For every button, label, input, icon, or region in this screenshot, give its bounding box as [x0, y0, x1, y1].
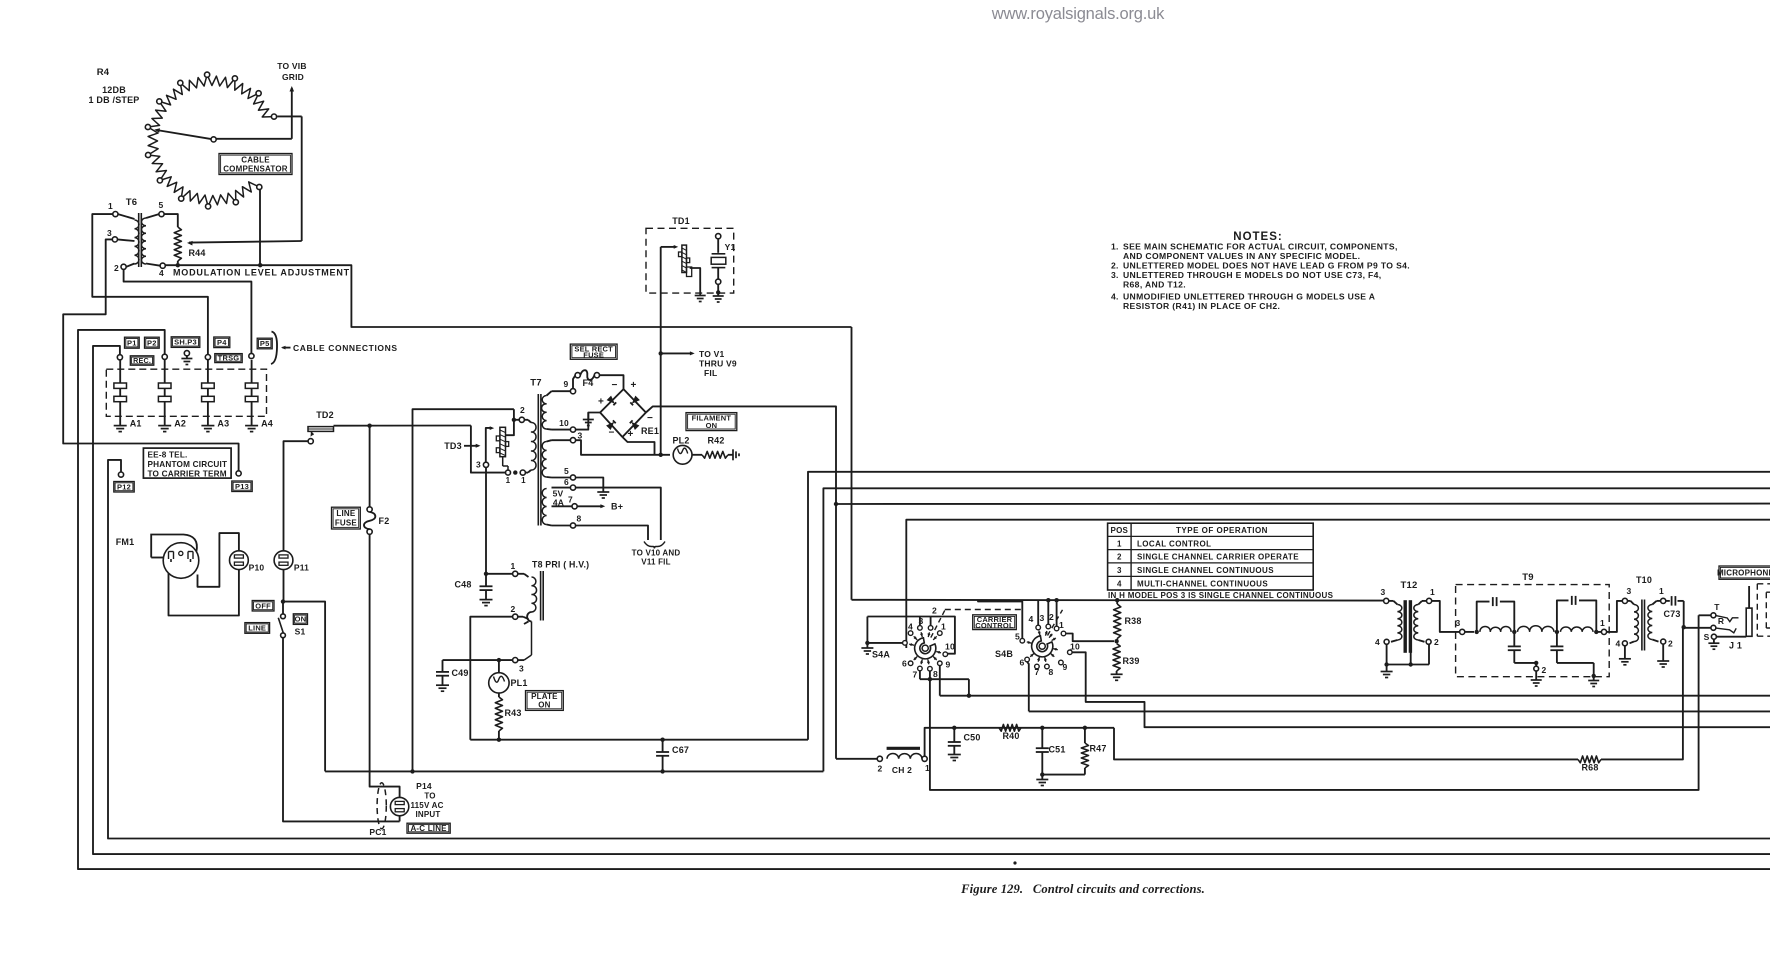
- wire bridge bottom to filament line: [622, 437, 654, 455]
- svg-text:3: 3: [1627, 586, 1632, 596]
- svg-text:2: 2: [114, 263, 119, 273]
- node junction C50: [952, 726, 956, 730]
- node junction S4A bottom: [928, 677, 932, 681]
- svg-text:1: 1: [511, 561, 516, 571]
- box OFF: [252, 601, 274, 612]
- wire AC bus upper (T8 return): [470, 739, 808, 741]
- svg-text:5: 5: [564, 466, 569, 476]
- svg-text:MODULATION LEVEL ADJUSTMENT: MODULATION LEVEL ADJUSTMENT: [173, 268, 350, 278]
- svg-text:GRID: GRID: [282, 72, 304, 82]
- svg-text:CABLE: CABLE: [241, 155, 270, 164]
- svg-text:1: 1: [941, 622, 946, 632]
- svg-text:AND COMPONENT VALUES IN ANY SP: AND COMPONENT VALUES IN ANY SPECIFIC MOD…: [1123, 251, 1360, 261]
- svg-text:FUSE: FUSE: [583, 350, 604, 359]
- node junction T9 mid1: [1512, 630, 1516, 634]
- wire T7 pin3 to filament line: [576, 440, 670, 455]
- capacitor T9 shunt2: [1550, 634, 1593, 676]
- svg-text:−: −: [647, 413, 653, 424]
- svg-text:A1: A1: [130, 419, 142, 429]
- svg-text:3: 3: [578, 431, 583, 441]
- terminal T7 pin8: [547, 514, 582, 529]
- svg-text:T9: T9: [1522, 572, 1534, 583]
- svg-text:T10: T10: [1636, 575, 1652, 585]
- svg-text:C48: C48: [454, 580, 471, 590]
- wire T7 pin10 to bridge left with ground: [576, 413, 601, 430]
- capacitor T9 top1: [1477, 597, 1515, 632]
- arrester column A1: [114, 360, 142, 432]
- svg-text:REC.: REC.: [133, 356, 151, 365]
- wire R68 to C73 node: [1601, 627, 1683, 759]
- svg-text:4: 4: [159, 268, 164, 278]
- resistor R38: [1114, 600, 1142, 641]
- svg-text:R68, AND T12.: R68, AND T12.: [1123, 280, 1186, 290]
- resistor R39: [1111, 644, 1140, 681]
- dashed rotor pointer S4A: [931, 610, 1024, 638]
- wire R4 lower terminal down to modulation line: [259, 190, 261, 266]
- diode RE1 bottom-left: [606, 420, 616, 430]
- website watermark text: [991, 5, 1165, 23]
- svg-text:R47: R47: [1089, 744, 1106, 754]
- svg-text:EE-8 TEL.: EE-8 TEL.: [148, 451, 188, 460]
- node junction pin1 row: [513, 470, 517, 474]
- svg-text:5: 5: [1015, 632, 1020, 642]
- terminal P4: [205, 355, 210, 360]
- node junction T9 mid2: [1555, 630, 1559, 634]
- ground R42: [728, 449, 739, 460]
- svg-text:PL1: PL1: [510, 678, 527, 688]
- svg-text:1: 1: [506, 476, 511, 485]
- svg-text:SH.P3: SH.P3: [174, 338, 197, 347]
- svg-text:POS: POS: [1111, 526, 1129, 535]
- wire T7 pin3 to C48: [485, 467, 487, 573]
- wire F4 to bridge top: [600, 375, 624, 389]
- svg-text:TD3: TD3: [444, 441, 462, 451]
- cable sheath PC1 dashed: [369, 783, 386, 837]
- wire C51 R47 bottom with ground: [1036, 772, 1085, 785]
- resistor R40: [999, 724, 1021, 741]
- rectifier bridge RE1: [600, 389, 646, 437]
- rotary switch S4B: [995, 612, 1080, 677]
- node junction R4 lower on modulation line: [258, 263, 262, 267]
- svg-text:INPUT: INPUT: [416, 810, 441, 819]
- capacitor C48: [454, 574, 492, 606]
- wire T6 pin3 to P13 via left loop: [63, 239, 238, 471]
- node junction PL2: [659, 453, 663, 457]
- svg-text:4: 4: [1117, 580, 1122, 589]
- ground T10 pin4: [1619, 646, 1631, 665]
- wire bus2 AC return: [823, 488, 1770, 771]
- wire C48 node to T8 pin1: [486, 573, 513, 575]
- wire bus8 jog to R68 line: [1114, 728, 1578, 760]
- svg-text:TO V10 AND: TO V10 AND: [632, 549, 681, 558]
- svg-text:4.: 4.: [1111, 292, 1119, 302]
- svg-text:R38: R38: [1124, 616, 1141, 626]
- svg-text:−: −: [611, 380, 617, 391]
- rheostat R4 wiper arm: [154, 128, 216, 142]
- svg-text:1: 1: [1659, 586, 1664, 596]
- svg-text:9: 9: [564, 379, 569, 389]
- svg-text:LINE: LINE: [336, 509, 355, 518]
- terminal T9 pin3: [1456, 618, 1474, 635]
- jack J1 sleeve contact: [1704, 632, 1720, 649]
- wire carrier feed vertical: [851, 327, 853, 600]
- svg-text:ON: ON: [706, 421, 718, 430]
- svg-text:LOCAL CONTROL: LOCAL CONTROL: [1137, 539, 1211, 548]
- terminal T9 pin2: [1531, 665, 1547, 686]
- wire bus5 carrier line: [852, 599, 1384, 602]
- wire T9 shunt1 to terminal2: [1514, 661, 1538, 667]
- node junction PL1 top: [497, 658, 501, 662]
- svg-text:MULTI-CHANNEL CONTINUOUS: MULTI-CHANNEL CONTINUOUS: [1137, 580, 1268, 589]
- svg-text:3: 3: [1040, 613, 1045, 623]
- capacitor T9 shunt1: [1508, 632, 1521, 663]
- box FILAMENT ON: [686, 413, 737, 431]
- box P13: [232, 481, 252, 492]
- node junction R47 top: [1083, 726, 1087, 730]
- box CARRIER CONTROL: [973, 615, 1017, 630]
- capacitor T9 top2: [1557, 596, 1596, 632]
- svg-text:2.: 2.: [1111, 261, 1119, 271]
- connector box P4: [214, 337, 230, 348]
- fuse F4: [573, 370, 600, 388]
- terminal T7 pin3 secondary: [547, 431, 583, 443]
- svg-text:P4: P4: [217, 338, 227, 347]
- dashed microphone cable: [1757, 584, 1770, 636]
- svg-text:2: 2: [1434, 637, 1439, 647]
- svg-text:RESISTOR (R41) IN PLACE OF CH2: RESISTOR (R41) IN PLACE OF CH2.: [1123, 301, 1280, 311]
- svg-text:6: 6: [902, 659, 907, 669]
- svg-text:7: 7: [1035, 667, 1040, 677]
- svg-text:4A: 4A: [553, 498, 564, 508]
- plug P14: [390, 797, 408, 821]
- svg-text:OFF: OFF: [255, 601, 271, 610]
- terminal P13: [236, 471, 241, 476]
- svg-text:Figure 129. Control circuits: Figure 129. Control circuits and correct…: [960, 882, 1205, 896]
- ground bridge left: [583, 413, 594, 426]
- svg-text:C49: C49: [451, 668, 468, 678]
- diode RE1 bottom-right: [630, 420, 640, 430]
- node junction T9 out: [1594, 630, 1601, 634]
- svg-text:P14: P14: [416, 781, 432, 791]
- transformer T8: [511, 560, 590, 674]
- label 4 MODULATION LEVEL ADJUSTMENT: [159, 268, 350, 279]
- jack J1 ring contact: [1711, 616, 1724, 630]
- terminal T7 pin2: [514, 405, 525, 422]
- svg-text:1: 1: [1059, 620, 1064, 630]
- stray dot artifact: [1013, 861, 1016, 864]
- wire S4B contact6 to bus7: [1027, 662, 1029, 712]
- svg-text:1 DB /STEP: 1 DB /STEP: [88, 95, 139, 105]
- wire F2 to P14: [370, 534, 400, 797]
- dashed box T9: [1456, 572, 1610, 677]
- wire T6 pin2 to P5: [124, 269, 252, 353]
- transformer T7: [524, 378, 546, 526]
- box MICROPHONE: [1717, 566, 1770, 579]
- box SEL RECT FUSE: [570, 344, 617, 359]
- svg-text:6: 6: [1020, 658, 1025, 668]
- wire S4B contact1 to R38 R39 node: [1066, 634, 1114, 642]
- svg-text:TO V1: TO V1: [699, 349, 724, 359]
- svg-text:S4B: S4B: [995, 649, 1013, 659]
- svg-text:F4: F4: [583, 378, 594, 388]
- svg-text:TD1: TD1: [672, 216, 690, 226]
- svg-text:12DB: 12DB: [102, 85, 126, 95]
- svg-text:UNLETTERED MODEL DOES NOT HAVE: UNLETTERED MODEL DOES NOT HAVE LEAD G FR…: [1123, 261, 1410, 271]
- svg-text:A-C LINE: A-C LINE: [410, 824, 447, 833]
- rotary switch S4A: [872, 606, 955, 680]
- wire P1 to left bus: [93, 346, 1770, 854]
- wire CH2 to bus8: [925, 728, 1114, 756]
- svg-text:TO CARRIER TERM: TO CARRIER TERM: [148, 470, 227, 479]
- svg-text:3: 3: [107, 228, 112, 238]
- svg-text:3.: 3.: [1111, 270, 1119, 280]
- svg-text:1: 1: [1430, 587, 1435, 597]
- wire TD3 actuate arrow from pin3: [486, 426, 494, 462]
- transformer T6: [107, 197, 165, 273]
- svg-text:2: 2: [511, 604, 516, 614]
- node junction bus3 tap: [834, 502, 838, 506]
- wire bus3 from bridge: [836, 503, 1770, 505]
- svg-text:4: 4: [1616, 639, 1621, 649]
- node junction R38 R39: [1114, 639, 1118, 643]
- svg-text:TRSG: TRSG: [218, 354, 240, 363]
- svg-text:A3: A3: [217, 419, 229, 429]
- terminal T7 pin6: [552, 477, 576, 490]
- wire TD1 to fil node: [660, 247, 662, 455]
- wire S4B contact risers: [1038, 598, 1059, 626]
- svg-text:SEE MAIN SCHEMATIC FOR ACTUAL: SEE MAIN SCHEMATIC FOR ACTUAL CIRCUIT, C…: [1123, 242, 1398, 252]
- node junction TD2/F2: [367, 424, 371, 428]
- inductor T9 coil2: [1518, 626, 1555, 632]
- table POS TYPE OF OPERATION: [1108, 523, 1314, 590]
- node junction S1 top: [281, 599, 285, 603]
- label S1: [295, 627, 306, 637]
- svg-text:T6: T6: [126, 197, 138, 208]
- arrow to vib grid: [277, 61, 306, 92]
- box P12: [114, 482, 134, 493]
- capacitor C51: [1036, 728, 1066, 775]
- bracket cable connections: [271, 332, 398, 365]
- wire S4B contact10 jog line: [1072, 652, 1770, 727]
- label RE1: [641, 426, 659, 436]
- thermal delay TD2: [308, 410, 334, 444]
- svg-text:4: 4: [908, 622, 913, 632]
- node junction R38 top: [1115, 598, 1119, 602]
- svg-text:9: 9: [1063, 662, 1068, 672]
- wire P12 to bottom bus: [108, 460, 1770, 839]
- terminal P2: [162, 354, 167, 359]
- box CABLE COMPENSATOR: [219, 154, 292, 175]
- svg-text:10: 10: [559, 418, 569, 428]
- svg-text:2: 2: [1117, 553, 1122, 562]
- resistor R43: [495, 693, 521, 740]
- dashed box TD1: [646, 216, 734, 293]
- svg-text:3: 3: [1117, 566, 1122, 575]
- svg-text:3: 3: [519, 664, 524, 674]
- capacitor C67: [656, 738, 689, 774]
- svg-text:Y1: Y1: [725, 242, 736, 252]
- svg-text:1: 1: [108, 201, 113, 211]
- arrester column A3: [201, 360, 229, 432]
- capacitor C73: [1663, 596, 1683, 619]
- wire wiper to TO VIB GRID: [216, 88, 292, 139]
- svg-text:8: 8: [577, 514, 582, 524]
- svg-text:+: +: [598, 397, 604, 408]
- wire T6 pin1 to P4: [92, 214, 208, 354]
- box ON: [293, 614, 307, 625]
- notes text: [1111, 242, 1410, 312]
- wire S4A contact5 to ground and contact3: [861, 617, 930, 655]
- svg-text:−: −: [608, 428, 614, 439]
- svg-text:7: 7: [913, 670, 918, 680]
- svg-text:R43: R43: [504, 708, 521, 718]
- box LINE FUSE: [332, 507, 361, 529]
- wire P11 to TD2 contact: [284, 441, 309, 551]
- svg-text:P2: P2: [147, 338, 157, 347]
- resistor R47: [1081, 728, 1106, 775]
- wire S4A contact9 to bus6: [940, 666, 1770, 698]
- box EE-8 TEL PHANTOM CIRCUIT: [143, 448, 231, 478]
- svg-text:C67: C67: [672, 745, 689, 755]
- wire T7 pin5 to ground: [576, 478, 610, 499]
- note IN H MODEL: [1108, 591, 1334, 600]
- svg-text:R68: R68: [1581, 763, 1598, 773]
- svg-text:IN H MODEL POS 3 IS SINGLE CHA: IN H MODEL POS 3 IS SINGLE CHANNEL CONTI…: [1108, 591, 1334, 600]
- svg-text:T8 PRI ( H.V.): T8 PRI ( H.V.): [532, 560, 589, 570]
- svg-text:SINGLE CHANNEL CARRIER OPER: SINGLE CHANNEL CARRIER OPERATE: [1137, 553, 1299, 562]
- svg-text:P5: P5: [260, 339, 270, 348]
- label TD3 with arrow: [444, 441, 480, 451]
- svg-text:LINE: LINE: [248, 624, 266, 633]
- choke CH2: [836, 748, 930, 775]
- ground T10 pin2: [1657, 644, 1669, 667]
- terminal T7 pin5: [547, 466, 576, 480]
- svg-text:www.royalsignals.org.uk: www.royalsignals.org.uk: [991, 5, 1165, 23]
- transformer T10: [1616, 575, 1674, 651]
- svg-text:UNLETTERED THROUGH E MODELS D: UNLETTERED THROUGH E MODELS DO NOT USE C…: [1123, 270, 1382, 280]
- jack J1 tip contact: [1699, 602, 1721, 618]
- label TO V1 THRU V9 FIL: [699, 349, 737, 378]
- diode RE1 top-left: [607, 396, 617, 406]
- thermal delay TD3: [496, 427, 508, 470]
- svg-text:RE1: RE1: [641, 426, 659, 436]
- connector box P5: [257, 338, 272, 349]
- svg-text:4: 4: [1029, 614, 1034, 624]
- svg-text:CABLE CONNECTIONS: CABLE CONNECTIONS: [293, 343, 398, 353]
- box TRSG: [215, 354, 242, 363]
- terminal P1: [117, 355, 122, 360]
- svg-text:COMPENSATOR: COMPENSATOR: [223, 164, 288, 173]
- motor FM1: [116, 535, 199, 579]
- wire block left edge: [413, 409, 514, 771]
- svg-text:1: 1: [521, 476, 526, 485]
- connector box P2: [145, 337, 160, 348]
- crystal Y1: [711, 234, 735, 293]
- wire pin2 jog: [513, 409, 515, 420]
- svg-text:FUSE: FUSE: [335, 519, 358, 528]
- wire T12 pin4 pin2 grounds: [1381, 644, 1429, 677]
- node junction T7 pin2: [512, 418, 516, 422]
- capacitor C49: [436, 660, 469, 691]
- svg-text:R4: R4: [97, 67, 110, 78]
- wire TD2 line drop to pin1 row: [471, 426, 506, 473]
- rheostat R4 label: [88, 67, 139, 105]
- lamp PL1: [489, 660, 528, 693]
- node junction C51: [1040, 726, 1044, 730]
- svg-text:B+: B+: [611, 502, 623, 512]
- node junction T9 input: [1475, 630, 1479, 634]
- node junction R44 bottom: [176, 263, 180, 267]
- wire T8 pin2 return: [470, 617, 512, 740]
- terminal T7 pin7: [552, 495, 578, 509]
- svg-text:C51: C51: [1048, 745, 1065, 755]
- resistor R68: [1578, 756, 1601, 773]
- wire R4 end terminal to R44 wiper: [187, 116, 302, 245]
- svg-text:10: 10: [1070, 642, 1080, 652]
- svg-text:MICROPHONE: MICROPHONE: [1717, 568, 1770, 577]
- dashed capacitor bank box: [106, 369, 266, 416]
- label 5V 4A winding: [553, 489, 565, 508]
- arrow B+ from pin7: [577, 502, 623, 512]
- svg-text:T12: T12: [1401, 580, 1418, 591]
- svg-text:TO VIB: TO VIB: [277, 61, 306, 71]
- svg-text:ON: ON: [295, 615, 307, 624]
- svg-text:FIL: FIL: [704, 368, 717, 378]
- notes heading: [1233, 231, 1282, 243]
- wire AC bus lower: [325, 770, 823, 772]
- connector box SH.P3: [171, 337, 200, 348]
- wire P11 to S1: [283, 570, 285, 602]
- svg-text:F2: F2: [379, 516, 390, 526]
- wire F2 feed: [369, 426, 371, 507]
- svg-text:2: 2: [878, 764, 883, 774]
- svg-text:2: 2: [1049, 612, 1054, 622]
- node junction block bottom: [410, 769, 414, 773]
- svg-text:PC1: PC1: [369, 827, 386, 837]
- plug P10: [230, 551, 265, 573]
- wire T9 to T10: [1607, 601, 1623, 632]
- svg-text:A4: A4: [261, 419, 273, 429]
- wire T8 pin3 node: [443, 659, 513, 661]
- svg-text:SINGLE CHANNEL CONTINUOUS: SINGLE CHANNEL CONTINUOUS: [1137, 566, 1274, 575]
- wire bus4 S4A wiper feed: [906, 520, 1770, 648]
- svg-text:P1: P1: [127, 338, 137, 347]
- terminal T7 pin9: [547, 379, 576, 396]
- resistor R44: [174, 227, 205, 263]
- svg-text:R44: R44: [188, 248, 205, 258]
- box A-C LINE: [407, 823, 450, 833]
- svg-text:8: 8: [1049, 667, 1054, 677]
- terminal T7 pin3 lower: [476, 460, 489, 470]
- svg-text:5: 5: [159, 200, 164, 210]
- svg-text:T7: T7: [530, 378, 542, 389]
- svg-text:FM1: FM1: [116, 537, 135, 547]
- lamp PL2: [672, 436, 692, 465]
- inductor T9 coil1: [1480, 627, 1511, 632]
- wire T6 pin5 to R44: [164, 214, 178, 227]
- wire T12 pin1 to T9: [1432, 601, 1460, 632]
- terminal P5: [249, 353, 254, 358]
- figure caption: [960, 882, 1205, 896]
- arrester column A2: [158, 359, 186, 431]
- svg-text:P12: P12: [117, 482, 131, 491]
- wire P2 to left bus: [78, 330, 1770, 869]
- svg-text:3: 3: [1381, 587, 1386, 597]
- brace TO V10 AND V11 FIL: [632, 542, 681, 567]
- svg-text:4: 4: [1375, 637, 1380, 647]
- wire S4B contact5 riser: [978, 600, 1022, 638]
- svg-text:1.: 1.: [1111, 242, 1119, 252]
